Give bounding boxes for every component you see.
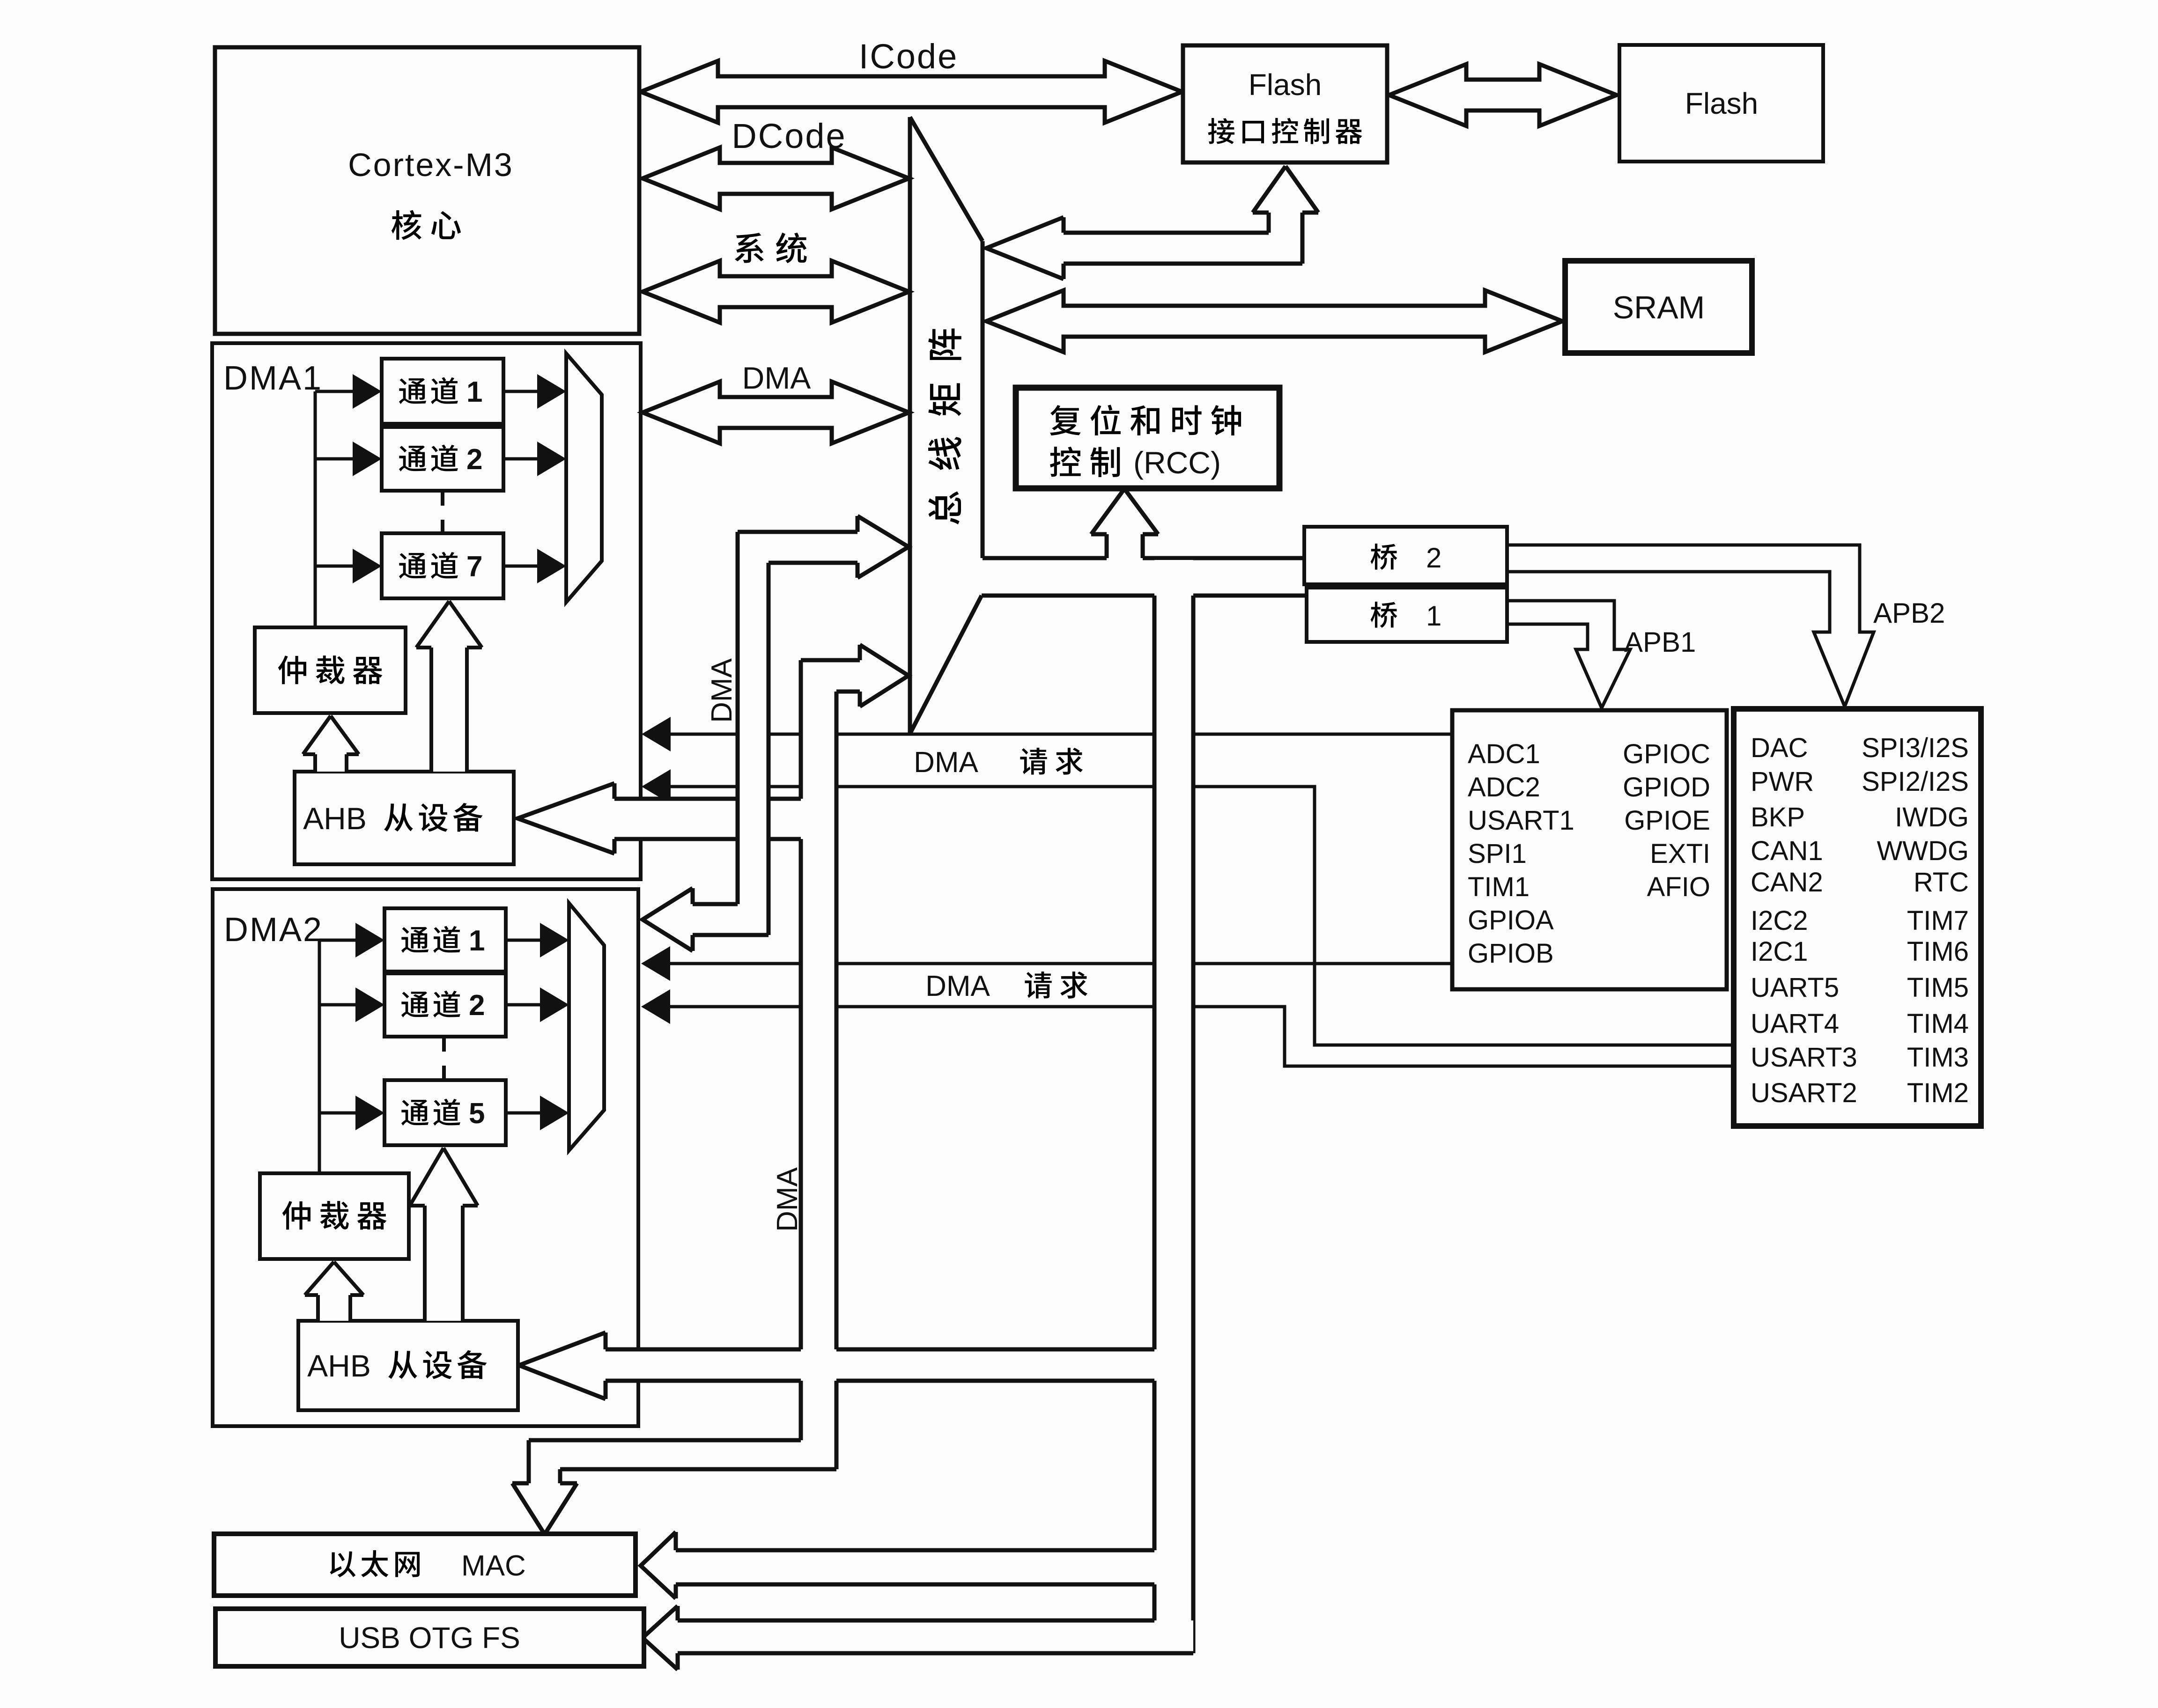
label 系统 bbox=[735, 233, 807, 263]
svg-text:MAC: MAC bbox=[461, 1550, 526, 1582]
wire DMA2 feed to channel2 bbox=[319, 987, 384, 1022]
block DMA2 channel5 通道5 bbox=[384, 1080, 506, 1145]
svg-text:EXTI: EXTI bbox=[1650, 839, 1710, 869]
wire DMA1 channel dots (dashed) bbox=[441, 493, 444, 531]
wire DMA2 channel2 to mux bbox=[506, 987, 569, 1022]
bus pipe down to Ethernet MAC / USB (vertical) bbox=[1154, 560, 1193, 1653]
label 仲裁器 (DMA1) bbox=[278, 655, 383, 684]
svg-text:USB OTG FS: USB OTG FS bbox=[339, 1621, 520, 1655]
block Flash interface controller bbox=[1183, 45, 1387, 162]
block DMA1 channel7 通道7 bbox=[382, 533, 503, 598]
svg-text:APB1: APB1 bbox=[1624, 626, 1696, 658]
svg-text:GPIOD: GPIOD bbox=[1623, 772, 1710, 802]
arrow DMA2 AHB slave to arbiter (up) bbox=[305, 1262, 363, 1321]
wire DMA2 feed to channel5 bbox=[319, 1096, 384, 1130]
svg-text:DMA: DMA bbox=[742, 361, 811, 395]
svg-text:TIM5: TIM5 bbox=[1907, 972, 1969, 1003]
svg-text:Flash: Flash bbox=[1685, 87, 1759, 120]
label DMA 请求 band2 bbox=[925, 970, 1087, 1002]
svg-text:I2C1: I2C1 bbox=[1751, 936, 1808, 967]
svg-text:GPIOC: GPIOC bbox=[1623, 739, 1710, 769]
block DMA1 outline bbox=[212, 343, 641, 879]
svg-text:Cortex-M3: Cortex-M3 bbox=[348, 147, 514, 183]
block Cortex-M3 bbox=[215, 47, 639, 334]
wire DMA1 feed to channel1 bbox=[315, 374, 382, 409]
block DMA2 outline bbox=[213, 889, 638, 1426]
block bridge2 桥2 bbox=[1304, 527, 1507, 584]
svg-text:TIM3: TIM3 bbox=[1907, 1042, 1969, 1073]
svg-text:TIM2: TIM2 bbox=[1907, 1078, 1969, 1108]
label Flash 接口控制器 bbox=[1208, 68, 1362, 144]
label APB1 bbox=[1624, 626, 1696, 658]
svg-text:AFIO: AFIO bbox=[1647, 872, 1710, 902]
svg-text:DMA: DMA bbox=[925, 970, 990, 1002]
svg-text:AHB: AHB bbox=[307, 1348, 371, 1383]
svg-text:Flash: Flash bbox=[1249, 68, 1322, 102]
bus arrow ICode (Cortex to Flash interface) bbox=[641, 61, 1182, 123]
block SRAM bbox=[1565, 261, 1752, 353]
label 以太网 MAC bbox=[330, 1550, 525, 1582]
bus arrow DMA (DMA1 to bus matrix) bbox=[643, 382, 909, 443]
svg-text:TIM6: TIM6 bbox=[1907, 936, 1969, 967]
svg-text:GPIOE: GPIOE bbox=[1624, 805, 1710, 836]
wire DMA1 feed to channel7 bbox=[315, 549, 382, 583]
block DMA2 channel2 通道2 bbox=[384, 973, 506, 1037]
svg-text:PWR: PWR bbox=[1751, 766, 1814, 797]
label DMA 请求 band1 bbox=[914, 746, 1083, 779]
wire bridge2 to APB2 lower bbox=[1507, 570, 1830, 574]
wire DMA2 feed to channel1 bbox=[319, 923, 384, 957]
wire bridge1 to APB1 lower bbox=[1507, 623, 1588, 626]
wire bridge2 to APB2 upper bbox=[1507, 544, 1860, 547]
block USB OTG FS bbox=[215, 1609, 644, 1666]
label 通道7 (DMA1) bbox=[399, 551, 482, 583]
label DMA (AHB pipe, vertical) bbox=[771, 1167, 804, 1231]
arrow DMA1 AHB slave to arbiter (up) bbox=[303, 716, 359, 772]
svg-text:IWDG: IWDG bbox=[1895, 802, 1969, 832]
svg-text:1: 1 bbox=[1426, 600, 1441, 632]
block bridge1 桥1 bbox=[1307, 588, 1507, 642]
label Cortex-M3 bbox=[348, 147, 514, 183]
svg-text:DMA2: DMA2 bbox=[224, 911, 323, 949]
svg-text:AHB: AHB bbox=[303, 801, 367, 836]
svg-text:SPI2/I2S: SPI2/I2S bbox=[1862, 766, 1969, 797]
svg-text:USART2: USART2 bbox=[1751, 1078, 1857, 1108]
wire DMA request band1 upper (APB box to DMA1) bbox=[642, 717, 1452, 751]
block APB2 peripherals bbox=[1734, 709, 1981, 1126]
label USB OTG FS bbox=[339, 1621, 520, 1655]
block DMA2 AHB slave bbox=[298, 1321, 518, 1410]
label Flash (memory) bbox=[1685, 87, 1759, 120]
wire DMA1 channel1 to mux bbox=[503, 374, 566, 409]
block DMA1 channel1 通道1 bbox=[382, 359, 503, 424]
svg-text:APB2: APB2 bbox=[1873, 597, 1945, 629]
wire DMA request band2 lower (right box to DMA2) bbox=[641, 989, 1734, 1066]
svg-text:TIM7: TIM7 bbox=[1907, 906, 1969, 936]
block DMA2 channel1 通道1 bbox=[384, 908, 506, 972]
svg-text:ADC2: ADC2 bbox=[1468, 772, 1540, 802]
wire DMA2 arbiter feed bbox=[318, 940, 321, 1175]
wire DMA request band1 lower (right box to DMA1) bbox=[642, 769, 1734, 1045]
svg-text:SRAM: SRAM bbox=[1613, 290, 1705, 325]
svg-text:7: 7 bbox=[466, 551, 482, 583]
block Flash bbox=[1619, 45, 1823, 162]
svg-text:TIM1: TIM1 bbox=[1468, 872, 1530, 902]
bus arrow to Ethernet MAC (left) bbox=[641, 1532, 1154, 1620]
svg-text:I2C2: I2C2 bbox=[1751, 906, 1808, 936]
svg-text:ICode: ICode bbox=[859, 37, 958, 76]
label 通道1 (DMA1) bbox=[399, 376, 482, 408]
wire DMA1 channel7 to mux bbox=[503, 549, 566, 583]
label 通道1 (DMA2) bbox=[401, 925, 485, 957]
bus arrow 系统 (Cortex to bus matrix) bbox=[643, 261, 909, 323]
bus arrow to USB OTG FS (left) bbox=[643, 1606, 1193, 1670]
block DMA1 arbiter 仲裁器 bbox=[255, 627, 406, 713]
wire DMA1 feed to channel2 bbox=[315, 442, 382, 476]
bus arrow APB2 (down into peripheral box) bbox=[1507, 545, 1874, 707]
label 复位和时钟控制(RCC) bbox=[1050, 405, 1241, 480]
label 总线矩阵 (vertical) bbox=[928, 329, 961, 524]
svg-text:CAN2: CAN2 bbox=[1751, 867, 1823, 898]
svg-text:DAC: DAC bbox=[1751, 733, 1808, 763]
arrow DMA2 AHB slave to channel5 (up) bbox=[410, 1148, 478, 1321]
svg-text:TIM4: TIM4 bbox=[1907, 1009, 1969, 1039]
svg-text:DMA: DMA bbox=[914, 746, 978, 779]
block RCC bbox=[1016, 388, 1279, 488]
label APB2 peripheral list bbox=[1751, 733, 1969, 1108]
block Ethernet MAC bbox=[214, 1534, 636, 1596]
label DMA (DMA1 bus) bbox=[742, 361, 811, 395]
label SRAM bbox=[1613, 290, 1705, 325]
wire DMA request band2 upper (APB box to DMA2) bbox=[641, 946, 1451, 981]
svg-text:ADC1: ADC1 bbox=[1468, 739, 1540, 769]
label 核心 bbox=[392, 210, 461, 240]
svg-text:USART3: USART3 bbox=[1751, 1042, 1857, 1073]
wire bridge1 to APB1 upper bbox=[1507, 599, 1614, 603]
bus arrow DMA2 to bus matrix (L-shaped) bbox=[643, 516, 909, 951]
arrow DMA1 AHB slave to channel7 (up) bbox=[416, 601, 482, 772]
label 通道2 (DMA2) bbox=[401, 989, 485, 1022]
svg-text:CAN1: CAN1 bbox=[1751, 836, 1823, 866]
svg-text:GPIOB: GPIOB bbox=[1468, 938, 1554, 969]
label AHB从设备 (DMA1) bbox=[303, 801, 482, 836]
svg-text:DCode: DCode bbox=[732, 117, 846, 155]
bus arrow pipe to RCC (up) bbox=[1091, 489, 1158, 560]
svg-text:2: 2 bbox=[1426, 542, 1441, 574]
bus arrow bus matrix to Flash interface (L-shaped) bbox=[986, 166, 1318, 279]
svg-text:DMA1: DMA1 bbox=[223, 360, 323, 397]
svg-text:SPI3/I2S: SPI3/I2S bbox=[1862, 733, 1969, 763]
wire DMA2 channel5 to mux bbox=[506, 1096, 569, 1130]
label AHB从设备 (DMA2) bbox=[307, 1348, 487, 1383]
svg-text:2: 2 bbox=[469, 989, 485, 1022]
bus arrow DCode (Cortex to bus matrix) bbox=[643, 147, 909, 209]
wire DMA2 channel1 to mux bbox=[506, 923, 569, 957]
svg-text:DMA: DMA bbox=[771, 1167, 804, 1231]
label 通道2 (DMA1) bbox=[399, 443, 482, 476]
svg-text:2: 2 bbox=[466, 443, 482, 476]
block DMA1 channel2 通道2 bbox=[382, 427, 503, 491]
label 通道5 (DMA2) bbox=[401, 1097, 485, 1130]
svg-text:(RCC): (RCC) bbox=[1133, 445, 1221, 480]
label DMA1 bbox=[223, 360, 323, 397]
svg-text:DMA: DMA bbox=[706, 658, 738, 722]
mux DMA1 trapezoid bbox=[566, 353, 602, 602]
label DMA (DMA2 bus, vertical) bbox=[706, 658, 738, 722]
svg-text:UART5: UART5 bbox=[1751, 972, 1839, 1003]
svg-text:5: 5 bbox=[469, 1097, 485, 1130]
svg-text:1: 1 bbox=[466, 376, 482, 408]
wire DMA1 arbiter feed bbox=[314, 391, 317, 629]
label 桥2 bbox=[1371, 542, 1442, 574]
svg-text:1: 1 bbox=[469, 925, 485, 957]
svg-text:WWDG: WWDG bbox=[1877, 836, 1969, 866]
label 桥1 bbox=[1371, 600, 1442, 632]
label 仲裁器 (DMA2) bbox=[282, 1201, 387, 1229]
label APB2 bbox=[1873, 597, 1945, 629]
mux DMA2 trapezoid bbox=[569, 903, 604, 1150]
bus arrow Flash interface to Flash bbox=[1389, 64, 1617, 126]
bus arrow to DMA2 AHB slave (from vertical pipe) bbox=[519, 1333, 1154, 1399]
label DCode bbox=[732, 117, 846, 155]
bus matrix 总线矩阵 bbox=[910, 117, 983, 734]
wire DMA1 channel2 to mux bbox=[503, 442, 566, 476]
svg-text:UART4: UART4 bbox=[1751, 1009, 1839, 1039]
bus pipe bus matrix to bridges bbox=[982, 558, 1307, 596]
svg-text:BKP: BKP bbox=[1751, 802, 1805, 832]
label ICode bbox=[859, 37, 958, 76]
bus arrow APB1 (down into peripheral box) bbox=[1507, 601, 1630, 708]
svg-text:GPIOA: GPIOA bbox=[1468, 905, 1554, 935]
bus arrow bus matrix to SRAM bbox=[986, 290, 1562, 352]
block DMA2 arbiter 仲裁器 bbox=[260, 1173, 409, 1259]
label APB1 peripheral list bbox=[1468, 739, 1710, 969]
block DMA1 AHB slave bbox=[295, 772, 514, 864]
svg-text:USART1: USART1 bbox=[1468, 805, 1574, 836]
label DMA2 bbox=[224, 911, 323, 949]
bus pipe AHB system (arrow into matrix, down to DMA1/DMA2/Ethernet) bbox=[512, 645, 909, 1534]
block APB1 peripherals bbox=[1452, 710, 1727, 989]
wire DMA2 channel dots (dashed) bbox=[442, 1038, 446, 1078]
svg-text:RTC: RTC bbox=[1914, 867, 1969, 898]
svg-text:SPI1: SPI1 bbox=[1468, 839, 1527, 869]
